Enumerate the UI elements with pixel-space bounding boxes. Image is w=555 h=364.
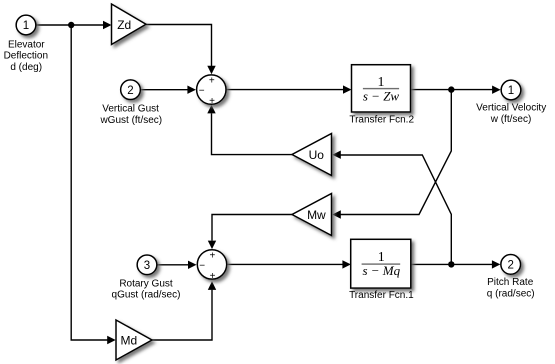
- svg-text:Deflection: Deflection: [4, 51, 48, 62]
- inport 3: [137, 255, 157, 275]
- label outport 1 Vertical Velocity w (ft/sec): [476, 103, 546, 125]
- svg-text:+: +: [210, 271, 216, 282]
- junction node d branch: [68, 22, 74, 28]
- outport 1: [501, 80, 521, 100]
- svg-text:+: +: [209, 76, 215, 87]
- wire node q to gain Uo crossing diagonal: [332, 151, 451, 265]
- svg-text:Transfer Fcn.1: Transfer Fcn.1: [349, 290, 414, 301]
- wire junction to gain Md: [71, 25, 116, 344]
- label Transfer Fcn.1: [349, 290, 414, 301]
- gain Mw: [292, 194, 332, 236]
- svg-text:Vertical Gust: Vertical Gust: [102, 104, 159, 115]
- outport 2: [501, 255, 521, 275]
- svg-text:3: 3: [144, 260, 150, 272]
- wire node w to gain Mw crossing diagonal: [332, 90, 451, 219]
- svg-text:qGust (rad/sec): qGust (rad/sec): [112, 290, 181, 301]
- svg-text:Uo: Uo: [309, 148, 325, 162]
- label inport 2 Vertical Gust wGust (ft/sec): [99, 104, 162, 127]
- sum junction Sum2: [197, 250, 226, 282]
- wire gain Md to sum2 bottom input: [152, 281, 216, 340]
- svg-text:Pitch Rate: Pitch Rate: [487, 277, 534, 288]
- wire inport2 to sum1 left input: [141, 86, 196, 94]
- wire sum1 to transfer fcn 2: [226, 85, 351, 93]
- svg-text:d (deg): d (deg): [10, 62, 42, 73]
- gain Uo: [292, 134, 332, 176]
- svg-text:2: 2: [507, 260, 513, 272]
- wire gain Mw to sum2 top input: [208, 215, 292, 250]
- svg-text:1: 1: [508, 85, 514, 97]
- svg-text:2: 2: [127, 85, 133, 97]
- wire sum2 to transfer fcn 1: [227, 260, 351, 268]
- svg-text:s − Zw: s − Zw: [363, 89, 400, 104]
- transfer fcn 2 (1/(s-Zw)): [352, 65, 411, 112]
- wire transfer fcn 2 to outport1: [411, 86, 501, 94]
- gain Zd: [112, 4, 147, 45]
- svg-text:−: −: [199, 260, 205, 271]
- wire gain Uo to sum1 bottom input: [207, 105, 292, 155]
- svg-text:+: +: [209, 250, 215, 261]
- label inport 1 Elevator Deflection d (deg): [4, 39, 48, 73]
- svg-text:wGust (ft/sec): wGust (ft/sec): [99, 115, 162, 126]
- junction node q: [448, 261, 454, 267]
- wire inport3 to sum2 left input: [157, 261, 196, 269]
- svg-text:+: +: [209, 96, 215, 107]
- svg-text:Vertical Velocity: Vertical Velocity: [476, 103, 546, 114]
- svg-text:1: 1: [23, 20, 29, 32]
- svg-text:Mw: Mw: [307, 208, 326, 222]
- label outport 2 Pitch Rate q (rad/sec): [487, 277, 535, 299]
- svg-text:Rotary Gust: Rotary Gust: [119, 278, 173, 289]
- wire gain Zd to sum1 top input: [146, 25, 216, 75]
- svg-text:s − Mq: s − Mq: [362, 263, 400, 278]
- sum junction Sum1: [197, 75, 226, 107]
- wire transfer fcn 1 to outport2: [411, 260, 501, 268]
- transfer fcn 1 (1/(s-Mq)): [351, 239, 411, 288]
- label inport 3 Rotary Gust qGust (rad/sec): [112, 278, 181, 300]
- label Transfer Fcn.2: [349, 115, 414, 126]
- svg-text:−: −: [199, 86, 205, 97]
- inport 1: [16, 15, 36, 35]
- inport 2: [121, 80, 141, 100]
- svg-text:Transfer Fcn.2: Transfer Fcn.2: [349, 115, 414, 126]
- svg-text:q (rad/sec): q (rad/sec): [487, 289, 535, 300]
- svg-text:Md: Md: [120, 333, 137, 347]
- gain Md: [116, 320, 152, 360]
- svg-text:Zd: Zd: [117, 18, 131, 32]
- svg-text:Elevator: Elevator: [8, 39, 45, 50]
- svg-text:w (ft/sec): w (ft/sec): [490, 114, 532, 125]
- wire inport1 to gain Zd: [36, 21, 111, 29]
- junction node w: [448, 86, 454, 92]
